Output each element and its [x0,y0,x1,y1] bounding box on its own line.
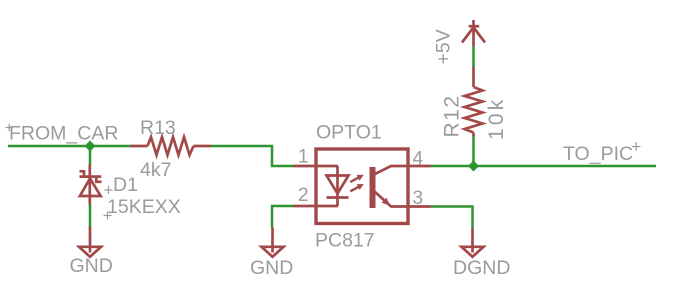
OPTO1 pin 2 lead [293,205,338,208]
svg-text:1: 1 [298,147,309,168]
resistor R13 [131,137,212,155]
svg-text:R12: R12 [441,94,464,137]
svg-text:TO_PIC: TO_PIC [563,143,633,165]
node junction R12/TO_PIC [468,161,479,172]
svg-text:3: 3 [413,188,424,209]
wire OPTO1 pin3 to DGND [431,207,473,228]
wire D1 to GND [89,204,92,227]
resistor R12 [465,67,483,137]
OPTO1 emitter arrowhead [382,198,390,206]
wire R13 to OPTO1 pin1 [211,146,293,166]
cross FROM_CAR origin [6,124,14,132]
OPTO1 internal LED [327,166,349,206]
svg-text:2: 2 [298,185,309,206]
OPTO1 light arrow lower [350,184,364,191]
OPTO1 pin 4 lead [391,165,432,168]
svg-text:PC817: PC817 [315,230,375,252]
ground GND under D1 [79,227,101,257]
cross 15KEXX origin [104,212,112,220]
svg-text:D1: D1 [113,174,138,196]
wire +5V to R12 [472,47,475,68]
svg-text:4: 4 [413,149,424,170]
OPTO1 pin 3 lead [391,205,432,208]
svg-text:DGND: DGND [453,257,510,279]
ground GND under OPTO1 pin2 [262,228,284,257]
wire R12 to junction [472,137,475,167]
svg-text:FROM_CAR: FROM_CAR [9,123,118,145]
wire FROM_CAR net horizontal [8,145,131,148]
node junction FROM_CAR/D1 [85,141,96,152]
svg-text:GND: GND [70,255,113,277]
OPTO1 light arrow upper [350,175,364,182]
wire junction to D1 [89,146,92,166]
OPTO1 phototransistor [370,166,392,208]
wire TO_PIC net from pin4 [431,165,656,168]
svg-text:10k: 10k [485,97,508,140]
svg-text:4k7: 4k7 [140,159,171,181]
diode D1 (TVS 15KEXX) [80,165,102,205]
svg-text:R13: R13 [140,117,176,139]
supply +5V arrow [462,20,485,47]
svg-text:OPTO1: OPTO1 [316,122,382,144]
wire OPTO1 pin2 to GND [272,206,293,228]
svg-text:15KEXX: 15KEXX [107,196,181,218]
cross TO_PIC origin [632,142,641,151]
OPTO1 pin 1 lead [293,165,338,168]
op-to-coupler OPTO1 box [316,149,408,224]
svg-text:GND: GND [250,257,293,279]
ground DGND under OPTO1 pin3 [462,228,484,257]
cross D1 origin [105,186,113,194]
svg-text:+5V: +5V [433,29,455,64]
